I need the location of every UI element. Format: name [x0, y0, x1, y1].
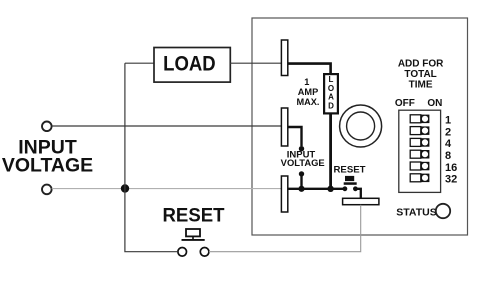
- svg-text:OFF: OFF: [395, 98, 415, 109]
- wire fuse to bottom bus: [329, 113, 332, 189]
- wire vertical bus: [124, 63, 126, 188]
- wire bottom bus thick: [289, 188, 344, 190]
- blade terminal Q2: [281, 108, 287, 146]
- svg-text:16: 16: [445, 162, 457, 174]
- DIP switch 5: [410, 162, 429, 171]
- svg-text:ADD FOR: ADD FOR: [398, 59, 444, 70]
- svg-text:4: 4: [445, 138, 452, 150]
- svg-text:VOLTAGE: VOLTAGE: [2, 155, 93, 177]
- svg-text:AMP: AMP: [298, 87, 318, 97]
- svg-text:TIME: TIME: [409, 79, 433, 90]
- onboard reset contact right: [353, 186, 358, 191]
- node dot below module label: [299, 171, 304, 176]
- module outline: [252, 18, 468, 235]
- svg-text:LOAD: LOAD: [163, 51, 216, 75]
- relay output blade: [343, 198, 379, 204]
- wire contact to relay blade: [355, 189, 360, 199]
- svg-text:RESET: RESET: [334, 164, 366, 175]
- wire bus to load box: [125, 62, 154, 64]
- blade terminal Q1: [281, 40, 287, 76]
- svg-text:1: 1: [304, 77, 309, 87]
- svg-text:D: D: [328, 101, 334, 110]
- svg-text:L: L: [329, 75, 334, 84]
- dip switch block: [399, 110, 441, 192]
- DIP switch 6: [410, 174, 429, 183]
- svg-text:A: A: [328, 93, 334, 102]
- svg-text:MAX.: MAX.: [297, 97, 320, 107]
- DIP switch 4: [410, 150, 429, 159]
- wire load box to blade Q1: [230, 62, 281, 64]
- wire reset contact to relay blade: [209, 205, 361, 252]
- node junction bus/fuse: [327, 186, 333, 192]
- external reset pushbutton: [182, 229, 205, 240]
- status LED: [436, 204, 450, 218]
- timer knob inner: [347, 112, 375, 140]
- svg-text:STATUS: STATUS: [396, 206, 436, 218]
- external reset contact right: [200, 248, 209, 257]
- node junction bus/stub: [298, 186, 304, 192]
- svg-text:VOLTAGE: VOLTAGE: [281, 158, 325, 168]
- svg-text:RESET: RESET: [163, 206, 225, 227]
- DIP switch 3: [410, 138, 429, 147]
- svg-text:1: 1: [445, 115, 451, 127]
- label INPUT VOLTAGE module: [281, 150, 325, 169]
- DIP switch 1: [410, 115, 429, 124]
- blade terminal Q3: [281, 176, 287, 212]
- svg-text:32: 32: [445, 174, 457, 186]
- onboard reset contact left: [343, 186, 348, 191]
- node dot above module label: [299, 146, 304, 151]
- wire bottom input to blade Q3: [52, 188, 282, 190]
- load box L1: [154, 48, 230, 83]
- terminal J1 input voltage top: [42, 122, 52, 132]
- wire blade Q1 to fuse: [288, 64, 331, 75]
- fuse LOAD box: [324, 74, 338, 113]
- external reset contact left: [178, 248, 187, 257]
- wire blade Q2 elbow: [288, 127, 302, 146]
- timer knob outer: [340, 105, 382, 147]
- onboard reset button actuator: [344, 176, 357, 185]
- label INPUT VOLTAGE: [2, 136, 93, 176]
- svg-text:O: O: [328, 84, 334, 93]
- DIP switch 2: [410, 126, 429, 134]
- label 1 AMP MAX: [297, 77, 320, 107]
- node junction bus/bottom input: [121, 184, 129, 192]
- terminal J2 input voltage bottom: [42, 185, 52, 195]
- label ADD FOR TOTAL TIME: [398, 59, 444, 91]
- wire top input to blade Q2: [52, 125, 282, 127]
- svg-text:2: 2: [445, 126, 451, 138]
- wire bus to reset contact: [125, 189, 178, 252]
- wire stub to bottom bus: [300, 174, 302, 189]
- svg-text:8: 8: [445, 150, 451, 162]
- svg-text:ON: ON: [427, 98, 442, 109]
